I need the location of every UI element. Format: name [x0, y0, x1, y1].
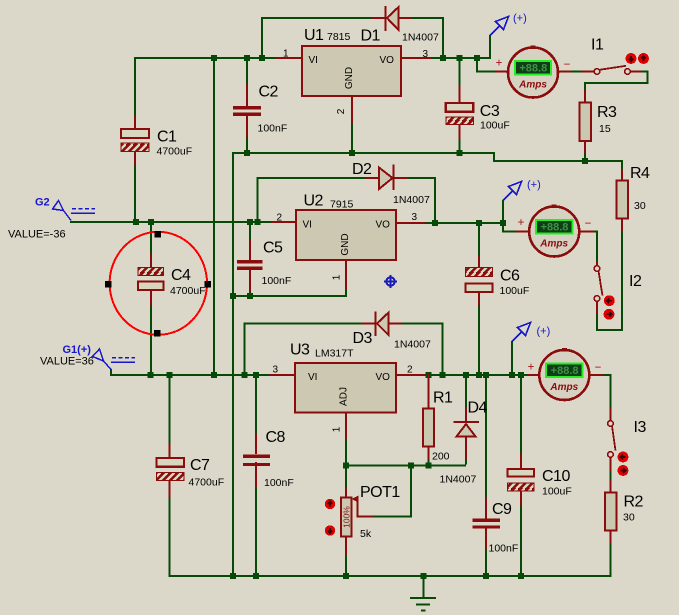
wire: U2 GND wire y296: [233, 288, 346, 296]
wire: ammeter1 plus feed: [477, 58, 496, 72]
DC source terminal G1: [93, 349, 136, 370]
junction (257.5,222): [255, 219, 261, 225]
junction (477,58): [474, 55, 480, 61]
wire: switch I2 bottom to R4 bottom: [597, 231, 622, 330]
svg-text:3: 3: [423, 49, 429, 60]
capacitor C2 (100nF): [233, 106, 261, 116]
svg-text:+: +: [496, 58, 503, 70]
ammeter U? (I1 meter): [508, 46, 558, 98]
switch I2 actuator dots: [604, 295, 615, 319]
wire: D2 left wire and drop to G2 rail: [258, 178, 368, 222]
wire: U1 GND pin down: [351, 122, 353, 153]
svg-text:D1: D1: [361, 28, 381, 45]
regulator U2 7915 body: [296, 210, 396, 260]
potentiometer POT1 5k: [341, 496, 359, 537]
svg-text:100uF: 100uF: [542, 486, 572, 498]
svg-text:4700uF: 4700uF: [157, 146, 193, 158]
junction (428.5,465.5): [426, 463, 432, 469]
svg-text:−: −: [564, 59, 571, 71]
svg-text:−: −: [595, 362, 602, 374]
svg-text:3: 3: [412, 212, 418, 223]
wire: R2 leads: [609, 479, 611, 493]
svg-text:GND: GND: [344, 67, 355, 89]
junction (443,58): [440, 55, 446, 61]
wire: POT1 wiper jog: [372, 466, 411, 517]
wire: VI rail top left (U1 input) y58: [135, 57, 277, 59]
junction (250,222): [247, 219, 253, 225]
wire: switch I2 leads: [596, 261, 598, 266]
handle bottom: [154, 330, 161, 337]
pin leads (dark red): [135, 18, 642, 555]
svg-text:−: −: [585, 218, 592, 230]
svg-text:30: 30: [623, 512, 635, 524]
wire: ammeter1 lead left: [495, 70, 509, 72]
junction (169.5,375): [167, 372, 173, 378]
svg-text:5k: 5k: [360, 528, 372, 540]
svg-text:30: 30: [634, 200, 646, 212]
svg-text:U2: U2: [304, 193, 324, 210]
diode D3: [376, 312, 389, 337]
svg-text:I3: I3: [634, 419, 647, 436]
svg-text:C8: C8: [266, 429, 286, 446]
svg-text:1: 1: [332, 426, 343, 432]
wire: D1 right vertical x443: [442, 17, 444, 58]
wire: U2 VO rail y223: [424, 222, 503, 224]
svg-text:POT1: POT1: [360, 484, 400, 501]
svg-text:4700uF: 4700uF: [170, 285, 206, 297]
svg-text:+88.8: +88.8: [519, 63, 547, 75]
wire: C10 top stub: [520, 375, 522, 455]
wire: POT1 leads: [345, 488, 347, 498]
junction (233,576): [230, 573, 236, 579]
wire: D1 leads: [371, 17, 385, 19]
wire: G2 rail y222: [71, 221, 272, 222]
wire: C2 leads: [246, 84, 248, 107]
wire: POT1 bottom stub: [345, 554, 347, 576]
wire: D3 right wire and drop to VO3 rail: [400, 324, 443, 376]
svg-text:C6: C6: [500, 268, 520, 285]
wire: U2 pin2 lead: [271, 221, 296, 223]
capacitor C10 (electrolytic 100uF): [508, 469, 535, 491]
svg-text:ADJ: ADJ: [339, 387, 350, 406]
wire: R1 bottom lead: [427, 447, 429, 460]
wire: G1 rail y375: [111, 369, 270, 375]
junction (233,296): [230, 293, 236, 299]
wire: switch I3 leads: [609, 407, 611, 421]
junction (136,222): [133, 219, 139, 225]
svg-text:100nF: 100nF: [258, 123, 288, 135]
handle left: [105, 281, 112, 288]
junction (346,465.5): [343, 463, 349, 469]
svg-text:R4: R4: [630, 165, 650, 182]
svg-text:LM317T: LM317T: [315, 348, 354, 360]
wire: ammeter3 minus corner: [602, 375, 611, 408]
wire: ammeter2 minus corner: [592, 232, 597, 263]
svg-text:D2: D2: [352, 161, 372, 178]
svg-text:7815: 7815: [327, 31, 351, 43]
wire: C4 top stub: [150, 222, 152, 255]
svg-text:C5: C5: [263, 240, 283, 257]
junction (262,58): [259, 55, 265, 61]
capacitor C4 (electrolytic 4700uF, inverted): [138, 268, 164, 291]
wire: D1 left vertical x262: [261, 18, 263, 58]
svg-text:VO: VO: [380, 55, 395, 66]
junction (411,465.5): [408, 463, 414, 469]
svg-text:100uF: 100uF: [500, 285, 530, 297]
svg-text:C3: C3: [480, 103, 500, 120]
wire: C5 leads: [249, 239, 251, 261]
capacitor C5 (100nF): [237, 260, 263, 270]
wire: D4 bottom drop to ADJ wire: [465, 458, 467, 465]
wire: R2 bottom to ground rail: [609, 543, 611, 576]
wire: R1 top lead: [427, 374, 429, 409]
wire: C2 top stub: [246, 58, 248, 85]
svg-text:100uF: 100uF: [480, 119, 510, 131]
junction (428.5,375): [426, 372, 432, 378]
wire: U2 pin1 lead: [345, 260, 347, 289]
wire: D4 top stub: [465, 375, 467, 408]
junction (521,375): [518, 372, 524, 378]
svg-text:100nF: 100nF: [264, 477, 294, 489]
wire: U3 ADJ pin down: [345, 439, 347, 466]
wire: ground vertical x233: [232, 152, 234, 577]
svg-text:GND: GND: [340, 233, 351, 255]
wire: POT1 top stub: [345, 466, 347, 490]
DC source terminal G2: [53, 201, 96, 221]
capacitor C1 (electrolytic 4700uF): [121, 129, 149, 152]
POT1 actuator down: [325, 525, 335, 535]
wire: C4 leads: [150, 254, 152, 268]
svg-text:C2: C2: [259, 84, 279, 101]
wire: ground bottom rail y576: [170, 575, 612, 576]
junction (459.5,153): [457, 150, 463, 156]
regulator U1 7815 body: [302, 46, 401, 96]
svg-text:7915: 7915: [330, 199, 354, 211]
wire: U1 pin3 lead: [401, 57, 431, 59]
junction (151,222): [148, 219, 154, 225]
POT1 wiper arrow: [352, 496, 359, 503]
wire: D3 left wire and drop to VI rail: [245, 324, 364, 376]
svg-text:Amps: Amps: [539, 239, 568, 250]
wire: switch I3 to R2: [609, 471, 611, 480]
wire: D3 leads: [362, 322, 375, 324]
wire: C8 bottom vertical: [255, 486, 257, 576]
svg-text:VI: VI: [308, 372, 317, 383]
wire: U1 pin1 lead: [276, 57, 302, 59]
svg-text:4700uF: 4700uF: [189, 477, 225, 489]
junction (486,375): [483, 372, 489, 378]
wire: C5 top stub: [249, 222, 251, 240]
junction (247,58): [244, 55, 250, 61]
diode D1: [386, 6, 399, 31]
svg-text:C4: C4: [171, 267, 191, 284]
wire: C1 leads: [134, 116, 136, 130]
svg-text:C10: C10: [542, 468, 570, 485]
svg-text:D4: D4: [468, 400, 488, 417]
svg-text:(+): (+): [513, 13, 527, 25]
wire: POT1 wiper lead: [358, 498, 374, 517]
wire: U1 pin2 lead: [351, 96, 353, 123]
svg-text:+: +: [528, 362, 535, 374]
junction (423.5,576): [421, 573, 427, 579]
wire: C4 bottom vertical: [150, 305, 152, 375]
probe (+) on U3 output: [512, 323, 531, 342]
origin marker: [384, 275, 397, 288]
junction (214,375): [211, 372, 217, 378]
junction (150.5,375): [148, 372, 154, 378]
junction (256,576): [253, 573, 259, 579]
wire: C2 bottom stub: [246, 136, 248, 153]
wire: ammeter1 lead right: [557, 70, 571, 72]
wire: C7 leads: [168, 444, 170, 459]
svg-text:100nF: 100nF: [262, 275, 292, 287]
diode D2: [379, 165, 394, 191]
wire: C6 bottom vertical: [478, 304, 480, 375]
wire: D4 leads: [465, 407, 467, 422]
svg-text:1: 1: [283, 49, 289, 60]
handle top: [155, 231, 162, 238]
svg-text:Amps: Amps: [518, 80, 547, 91]
junction (466,375): [463, 372, 469, 378]
wire: C7 top stub: [168, 375, 170, 445]
svg-text:1N4007: 1N4007: [394, 339, 431, 351]
wire: U3 VO rail y375: [424, 374, 529, 376]
svg-text:(+): (+): [527, 179, 541, 191]
junction (256,375): [253, 372, 259, 378]
wire: D1 top horizontal left: [261, 17, 372, 19]
capacitor C3 (electrolytic 100uF): [446, 103, 474, 125]
wire: D2 right wire and drop to VO2 rail: [406, 178, 435, 223]
wire: C6 leads: [478, 255, 480, 268]
junction (214,58): [211, 55, 217, 61]
junction (479,375): [476, 372, 482, 378]
wire: U2 pin3 lead: [396, 222, 425, 224]
junction (459.5,58): [457, 55, 463, 61]
capacitor C7 (electrolytic 4700uF): [157, 458, 185, 481]
junction (585,161): [582, 158, 588, 164]
svg-text:100nF: 100nF: [489, 543, 519, 555]
wire: C5 bottom stub: [249, 290, 251, 296]
svg-text:G1(+): G1(+): [63, 344, 92, 356]
svg-text:VALUE=-36: VALUE=-36: [8, 229, 66, 241]
capacitor C6 (electrolytic 100uF, inverted): [466, 268, 493, 293]
wire: R1 bottom stub: [427, 458, 429, 466]
wire: C9 bottom stub: [485, 548, 487, 576]
wire: R4 bottom stub red handled separately: [621, 218, 623, 232]
probe (+) on U1 output: [490, 17, 509, 36]
svg-text:I1: I1: [591, 37, 604, 54]
wire: ammeter1 minus to switch I1: [570, 70, 583, 72]
junction (512,375): [509, 372, 515, 378]
resistor R4 30: [617, 181, 629, 219]
svg-text:D3: D3: [353, 330, 373, 347]
junction (521,576): [518, 573, 524, 579]
diode D4: [454, 422, 480, 437]
ground symbol: [410, 576, 436, 611]
svg-text:100%: 100%: [342, 506, 352, 528]
svg-text:2: 2: [407, 365, 413, 376]
wire: C1 bottom vertical: [134, 165, 136, 222]
junction (435,223): [432, 220, 438, 226]
svg-text:+88.8: +88.8: [541, 222, 569, 234]
selection circle around C4: [105, 231, 211, 337]
svg-text:1: 1: [332, 274, 343, 280]
wire: C8 leads: [255, 434, 257, 454]
wire: U3 pin3 lead: [270, 374, 296, 376]
svg-text:VO: VO: [376, 220, 391, 231]
svg-text:1N4007: 1N4007: [393, 194, 430, 206]
ammeter (I2 meter): [529, 205, 579, 257]
wire: U1 VO rail y58: [430, 57, 490, 59]
capacitor C8 (100nF): [243, 455, 270, 467]
junction (486,576): [483, 573, 489, 579]
switch I1 actuator dots: [626, 53, 649, 64]
switch I3 actuator dots: [618, 452, 629, 476]
wire: switch I1 to R3 top: [585, 72, 648, 92]
junction (442.5,375): [440, 372, 446, 378]
svg-text:200: 200: [432, 451, 450, 463]
wire: D1 top horizontal right: [411, 17, 443, 19]
junction (503,223): [500, 220, 506, 226]
switch I1: [594, 66, 630, 74]
wire: U3 pin1 lead: [345, 413, 347, 441]
svg-text:1N4007: 1N4007: [402, 32, 439, 44]
svg-text:(+): (+): [537, 326, 551, 338]
wire: C6 top stub: [478, 223, 480, 256]
svg-text:U3: U3: [290, 342, 310, 359]
junction (250,296): [247, 293, 253, 299]
switch I2: [594, 266, 602, 302]
svg-text:15: 15: [599, 123, 611, 135]
capacitor C9 (100nF): [473, 519, 501, 529]
wire: probe1 stub: [489, 35, 491, 59]
ammeter (I3 meter): [539, 348, 589, 400]
svg-text:VI: VI: [303, 220, 312, 231]
svg-text:C7: C7: [190, 457, 210, 474]
svg-text:R2: R2: [624, 494, 644, 511]
wire: R3 leads: [584, 90, 586, 103]
resistor R1 200: [423, 409, 434, 447]
wire: C9 leads: [485, 498, 487, 519]
junction (479,223): [476, 220, 482, 226]
svg-text:C9: C9: [492, 501, 512, 518]
wire: ground rail y153: [233, 153, 622, 161]
wire: switch I1 leads: [582, 70, 595, 72]
wire: D2 leads: [366, 177, 379, 179]
wire: ammeter2 leads: [515, 230, 530, 232]
switch I3: [608, 421, 616, 458]
resistor R3 15: [580, 103, 592, 142]
wire: probe2 stub: [502, 200, 504, 223]
wire: C3 bottom stub: [458, 139, 460, 153]
wire: R3 bottom stub: [584, 152, 586, 161]
handle right: [205, 281, 212, 288]
wire: probe3 stub: [511, 341, 513, 375]
svg-text:+: +: [518, 217, 525, 229]
wire: C9 top vertical: [485, 375, 487, 499]
svg-text:VI: VI: [309, 55, 318, 66]
wire: U3 pin2 lead: [396, 374, 425, 376]
wire: C3 leads: [458, 85, 460, 104]
probe (+) on U2 output: [503, 182, 522, 201]
svg-text:R1: R1: [433, 390, 453, 407]
svg-text:+88.8: +88.8: [551, 365, 579, 377]
junction (244.5,375): [242, 372, 248, 378]
wire: R4 top stub: [621, 160, 623, 170]
svg-text:C1: C1: [157, 129, 177, 146]
svg-text:G2: G2: [35, 197, 50, 209]
svg-text:I2: I2: [629, 273, 642, 290]
wire: R4 leads: [621, 169, 623, 181]
wire: ammeter2 plus jog: [503, 222, 516, 232]
svg-text:3: 3: [273, 365, 279, 376]
regulator U3 LM317T body: [295, 363, 396, 413]
svg-text:VO: VO: [376, 372, 391, 383]
svg-text:VALUE=36: VALUE=36: [40, 356, 94, 368]
resistor R2 30: [605, 493, 617, 531]
svg-text:2: 2: [336, 108, 347, 114]
wire: C8 top stub: [255, 375, 257, 435]
svg-text:2: 2: [277, 213, 283, 224]
wire: C7 bottom vertical: [168, 496, 170, 576]
junction (352,153): [349, 150, 355, 156]
POT1 actuator up: [325, 499, 335, 509]
svg-text:1N4007: 1N4007: [440, 474, 477, 486]
svg-text:R3: R3: [597, 104, 617, 121]
junction (346,576): [343, 573, 349, 579]
wire: C1 top vertical: [134, 57, 136, 117]
wire: vertical x214 G1 to VI rail: [213, 57, 215, 375]
wire: C10 bottom vertical: [520, 505, 522, 576]
wire: ADJ node wire y465.5: [346, 464, 466, 466]
junction (247,153): [244, 150, 250, 156]
svg-text:U1: U1: [304, 27, 324, 44]
svg-text:Amps: Amps: [549, 382, 578, 393]
wire: ammeter3 leads: [528, 374, 540, 376]
wire: C3 top stub: [458, 58, 460, 86]
wire: C10 leads: [520, 454, 522, 470]
